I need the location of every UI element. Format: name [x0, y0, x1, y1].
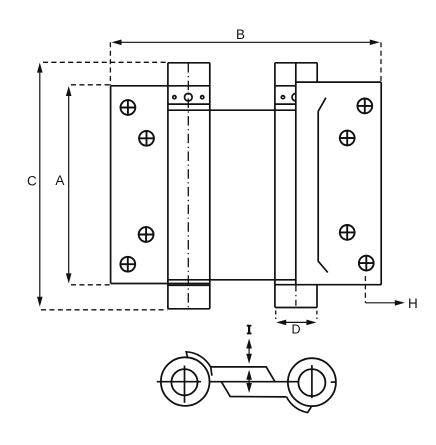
extension dashed line C top: [43, 61, 168, 63]
top view: right knuckle outer circle: [288, 358, 336, 406]
dimension B right arrowhead: [370, 40, 380, 46]
dimension C line: [39, 65, 41, 305]
dimension A line: [68, 88, 70, 282]
extension dashed line left of B: [109, 42, 111, 85]
extension dashed line A bottom: [71, 284, 111, 286]
right plate spring flap line: [318, 98, 328, 273]
left barrel adjuster holes: [173, 93, 204, 101]
label I: [247, 325, 252, 335]
right plate screw hole 3: [339, 224, 355, 240]
top view: right knuckle inner circle: [298, 369, 325, 396]
left leaf plate: [111, 86, 210, 284]
svg-text:H: H: [408, 296, 418, 311]
top view: shared middle edge: [210, 381, 299, 383]
right spring barrel: [275, 63, 317, 308]
dimension H arrow: [365, 302, 399, 304]
extension dashed line right of B: [380, 42, 382, 81]
top view: upper leaf: [211, 367, 275, 382]
dimension I lower double arrow: [248, 372, 250, 391]
top view: right leaf curl tab: [287, 397, 312, 413]
right plate screw hole 4: [358, 255, 374, 271]
extension dashed line A top: [71, 84, 110, 86]
svg-text:D: D: [291, 323, 300, 337]
svg-text:B: B: [236, 27, 245, 42]
top view: right knuckle horizontal tick: [331, 381, 336, 383]
left plate screw hole 4: [120, 256, 136, 272]
svg-text:C: C: [27, 173, 37, 188]
center panel top edge: [168, 109, 296, 111]
top view: left knuckle inner circle: [171, 369, 197, 395]
top view: right knuckle vertical centerline: [311, 365, 313, 398]
svg-text:A: A: [55, 173, 64, 188]
right plate screw hole 2: [339, 130, 355, 146]
right barrel centerline: [295, 286, 297, 308]
dimension C bottom arrowhead: [37, 297, 43, 307]
top view: left leaf curl tab: [186, 352, 212, 376]
extension dashed line C bottom: [41, 309, 168, 311]
dimension B line: [116, 41, 375, 43]
top view: left knuckle outer circle: [161, 357, 210, 406]
dimension I upper double arrow: [248, 341, 250, 362]
left plate screw hole 2: [138, 130, 154, 146]
dimension C top arrowhead: [37, 63, 43, 73]
dimension D double arrow: [279, 321, 314, 323]
right plate screw hole 1: [357, 98, 373, 114]
left plate screw hole 1: [120, 99, 136, 115]
dimension A top arrowhead: [66, 86, 72, 96]
right barrel adjuster holes: [281, 93, 296, 101]
dimension A bottom arrowhead: [66, 273, 72, 283]
left barrel centerline: [187, 63, 189, 309]
top view: left knuckle horizontal centerline: [157, 381, 201, 383]
top view: left knuckle vertical centerline: [184, 366, 186, 403]
dimension D extension dashed lines: [275, 311, 277, 320]
dimension B left arrowhead: [112, 40, 122, 46]
dimension H extension dashed line: [364, 276, 366, 303]
center panel bottom edge: [168, 279, 296, 281]
right leaf plate: [275, 63, 381, 285]
left spring barrel: [168, 63, 210, 309]
top view: lower leaf: [221, 382, 286, 397]
left plate screw hole 3: [138, 226, 154, 242]
